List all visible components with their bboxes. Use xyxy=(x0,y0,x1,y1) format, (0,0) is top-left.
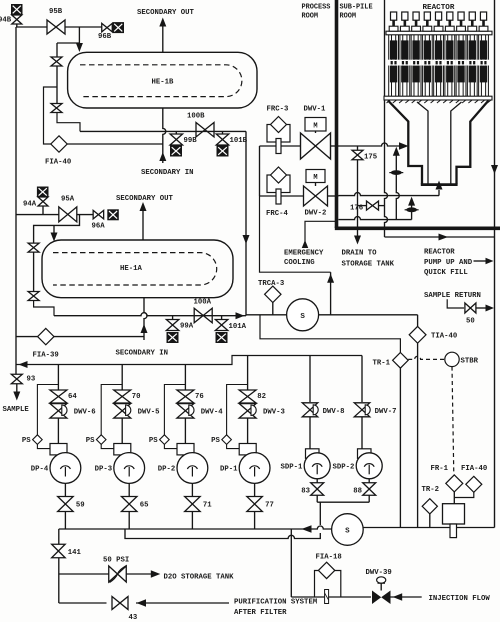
svg-text:76: 76 xyxy=(195,393,204,401)
svg-text:SDP-2: SDP-2 xyxy=(333,464,355,472)
flow arrow discharge header xyxy=(302,525,312,533)
wire 95B inlet line xyxy=(16,26,47,28)
valve HE-1A bypass upper xyxy=(28,243,39,252)
wall sub-pile room floor xyxy=(335,227,500,231)
wire drain drop with valve 175 xyxy=(357,146,359,151)
orifice lens 2 xyxy=(405,209,419,211)
wire SDP discharge join header xyxy=(317,501,369,503)
pump SDP-1 xyxy=(306,449,320,459)
svg-text:PUMP UP AND: PUMP UP AND xyxy=(424,259,473,267)
wire SECONDARY OUT B xyxy=(162,25,164,52)
wire lens pipe 1 (orifice riser) xyxy=(396,154,399,220)
svg-text:PS: PS xyxy=(149,437,158,445)
wire relief line to D2O tank xyxy=(126,573,152,575)
svg-text:SECONDARY OUT: SECONDARY OUT xyxy=(137,9,195,17)
pump SDP-2 xyxy=(358,449,372,459)
svg-text:95B: 95B xyxy=(49,8,63,16)
wire HE-1A inlet branch xyxy=(34,215,80,243)
heat exchanger HE-1A tube (dashed) xyxy=(53,253,217,285)
svg-text:101B: 101B xyxy=(230,137,248,145)
svg-text:ROOM: ROOM xyxy=(302,13,319,21)
wire pump suction header xyxy=(16,356,362,365)
svg-text:FRC-4: FRC-4 xyxy=(266,210,289,218)
pump DP-3 xyxy=(114,444,131,455)
svg-text:141: 141 xyxy=(68,549,82,557)
valve 77 xyxy=(247,497,263,512)
valve 59 xyxy=(58,497,74,512)
instrument FIA-40 flow indicator xyxy=(51,136,67,152)
wire 77 to discharge header xyxy=(254,512,256,530)
wire HX outlets to primary pump xyxy=(246,314,287,316)
svg-text:DWV-4: DWV-4 xyxy=(201,409,224,417)
valve 95A xyxy=(59,207,77,222)
svg-text:DP-3: DP-3 xyxy=(95,465,113,473)
wire B outlet downcomer to pump suction xyxy=(245,131,247,315)
svg-text:DRAIN TO: DRAIN TO xyxy=(342,250,378,258)
wire injection riser xyxy=(290,529,292,597)
wire emergency cooling supply stub xyxy=(305,221,337,247)
svg-text:71: 71 xyxy=(203,502,212,510)
svg-text:93: 93 xyxy=(27,376,36,384)
svg-text:43: 43 xyxy=(129,614,138,622)
wire SECONDARY IN B riser xyxy=(163,108,166,163)
svg-text:M: M xyxy=(313,123,317,131)
svg-text:TR-2: TR-2 xyxy=(422,486,440,494)
wire lens pipe 2 (orifice riser) xyxy=(411,204,413,220)
valve 99B (bowtie + box-X) xyxy=(175,131,177,134)
valve 100B xyxy=(196,122,214,137)
valve 83 xyxy=(311,483,324,496)
svg-text:ROOM: ROOM xyxy=(340,13,357,21)
wire valve 141 down xyxy=(58,558,60,603)
wire FIA-40 elbow to FR-1 stem xyxy=(454,492,474,497)
wire HE-1B bypass middle xyxy=(56,66,58,104)
wire HE-1B bypass to outlet header xyxy=(57,113,80,132)
svg-text:HE-1A: HE-1A xyxy=(120,265,143,273)
wire 88 outlet xyxy=(368,495,370,502)
wire reactor right downcomer xyxy=(494,0,496,528)
svg-text:SAMPLE: SAMPLE xyxy=(3,406,30,414)
valve DWV-5 xyxy=(114,404,131,419)
wire DP discharge header xyxy=(59,526,332,529)
wire primary pump discharge xyxy=(319,314,418,316)
fuel assembly 7 xyxy=(455,12,466,96)
valve DWV-3 xyxy=(239,404,256,419)
valve 71 xyxy=(185,497,201,512)
instrument FIA-39 flow indicator xyxy=(38,328,54,344)
valve DWV-8 xyxy=(302,403,318,417)
svg-text:S: S xyxy=(300,313,305,321)
instrument FIA-18 flow element xyxy=(325,590,329,604)
wire FR-1 stem to holder xyxy=(453,492,455,504)
pump S secondary circulating xyxy=(332,514,364,546)
valve DWV-39 xyxy=(372,591,381,605)
wire DWV-1 line xyxy=(260,145,277,147)
wire TIA-40 down to bottom header xyxy=(417,343,419,527)
svg-text:95A: 95A xyxy=(61,196,75,204)
valve 50 xyxy=(465,303,476,313)
instrument TIA-40 xyxy=(409,326,426,343)
wire DWV-7 to pump xyxy=(361,417,363,449)
reactor vessel funnel bottom xyxy=(421,183,458,186)
wire DP-1 suction drop xyxy=(247,356,249,391)
orifice lens 1 xyxy=(389,172,403,174)
wire reactor pump up line xyxy=(385,236,495,238)
svg-text:M: M xyxy=(313,174,317,182)
svg-text:SUB-PILE: SUB-PILE xyxy=(340,4,373,12)
valve 82 xyxy=(239,390,256,403)
instrument PS DP-4 xyxy=(37,385,58,436)
fuel assembly 1 xyxy=(388,12,399,96)
valve 175 xyxy=(352,150,363,160)
wire FIA-40 secondary supply line xyxy=(44,87,58,144)
svg-text:DWV-2: DWV-2 xyxy=(305,210,327,218)
valve 88 xyxy=(363,483,376,496)
svg-text:DWV-7: DWV-7 xyxy=(375,408,397,416)
pump DP-2 xyxy=(177,444,194,455)
valve relief 50 PSI xyxy=(109,566,127,582)
valve 94A vent (box-X + bowtie) xyxy=(37,187,48,197)
wire DWV-6 to pump xyxy=(57,418,59,444)
flow arrow on HE-1A outlet xyxy=(236,312,245,319)
wire pipe B riser into vessel xyxy=(438,190,440,196)
valve 94B vent (box-X + bowtie) xyxy=(12,5,23,15)
valve 70 xyxy=(114,390,131,403)
wire DWV-1 to wall xyxy=(331,145,339,147)
wire HE-1B outlet header xyxy=(80,130,246,132)
wire purification line with arrow xyxy=(136,602,229,604)
valve 176 xyxy=(367,201,379,210)
wire DWV-3 to pump xyxy=(247,418,249,444)
instrument TRCA-3 xyxy=(272,302,274,315)
svg-text:PURIFICATION SYSTEM: PURIFICATION SYSTEM xyxy=(234,599,318,607)
reactor bottom plate hatching xyxy=(387,100,491,103)
wire HE-1A bypass middle xyxy=(33,252,35,292)
heat exchanger HE-1A shell xyxy=(42,240,233,298)
svg-text:DWV-5: DWV-5 xyxy=(138,409,160,417)
wire SECONDARY OUT A xyxy=(142,210,144,240)
svg-text:65: 65 xyxy=(140,502,149,510)
wire injection flow line xyxy=(291,596,371,598)
svg-text:SECONDARY OUT: SECONDARY OUT xyxy=(116,195,174,203)
valve 100A xyxy=(194,308,212,323)
wire SDP-2 discharge xyxy=(368,479,370,483)
valve DWV-7 xyxy=(354,403,370,417)
valve 96B (bowtie + box-X) xyxy=(102,23,113,32)
svg-text:EMERGENCY: EMERGENCY xyxy=(284,250,324,258)
wire injection inlet with arrow xyxy=(391,596,422,598)
valve 65 xyxy=(121,497,137,512)
wire DWV-5 to pump xyxy=(121,418,123,444)
instrument TR-1 xyxy=(393,353,409,369)
svg-text:59: 59 xyxy=(76,502,85,510)
svg-text:96A: 96A xyxy=(92,223,106,231)
svg-text:DWV-3: DWV-3 xyxy=(263,409,286,417)
svg-text:70: 70 xyxy=(132,393,141,401)
svg-text:SECONDARY IN: SECONDARY IN xyxy=(116,350,169,358)
svg-text:TIA-40: TIA-40 xyxy=(431,333,457,341)
wire purification return line xyxy=(59,602,107,604)
instrument TR-2 xyxy=(422,499,437,514)
valve 101B (bowtie + box-X) xyxy=(222,131,224,134)
svg-text:DP-2: DP-2 xyxy=(158,465,176,473)
wire DWV-2 to wall xyxy=(328,195,339,197)
valve HE-1A bypass lower xyxy=(28,292,39,301)
wire HE-1A inlet drop xyxy=(53,225,55,234)
pump DP-1 xyxy=(239,444,256,455)
valve DWV-2 motor operated xyxy=(306,170,325,183)
svg-text:DWV-8: DWV-8 xyxy=(323,408,345,416)
wire SDP-1 suction drop xyxy=(309,356,311,403)
svg-text:D2O STORAGE TANK: D2O STORAGE TANK xyxy=(164,574,235,582)
pump DP-4 xyxy=(50,444,67,455)
instrument FR-1 holder box and probe xyxy=(443,504,465,524)
valve 64 xyxy=(50,390,67,403)
svg-text:96B: 96B xyxy=(98,33,112,41)
svg-text:94B: 94B xyxy=(0,17,12,25)
svg-text:STBR: STBR xyxy=(461,358,479,366)
valve 99A (bowtie + box-X) xyxy=(172,316,174,320)
instrument FIA-40 (flow) xyxy=(466,476,482,492)
wire HE-1B bypass upper xyxy=(57,42,79,44)
fuel assembly 3 xyxy=(410,12,421,96)
wire 95A to 96A xyxy=(77,214,94,216)
svg-text:83: 83 xyxy=(301,488,310,496)
svg-text:SDP-1: SDP-1 xyxy=(281,464,304,472)
wire drain line down xyxy=(357,160,359,237)
wire emergency cooling riser xyxy=(330,272,332,315)
wire pump bypass to TR-1 xyxy=(260,315,400,353)
valve 43 xyxy=(112,597,128,610)
svg-text:SAMPLE RETURN: SAMPLE RETURN xyxy=(424,292,481,300)
wire DWV-2 line xyxy=(260,195,277,197)
wire HE-1B inlet drop xyxy=(78,27,80,45)
svg-text:100A: 100A xyxy=(194,299,212,307)
wire TR-2 stem xyxy=(429,514,431,528)
svg-text:FIA-39: FIA-39 xyxy=(33,352,59,360)
svg-text:HE-1B: HE-1B xyxy=(152,79,175,87)
svg-text:DWV-6: DWV-6 xyxy=(74,409,96,417)
wire 50 PSI relief line xyxy=(59,573,109,575)
svg-text:PS: PS xyxy=(86,437,95,445)
wire SECONDARY IN A riser xyxy=(144,298,147,340)
wire main left vertical header xyxy=(15,27,17,374)
instrument FR-1 xyxy=(446,475,463,492)
wire 83 outlet xyxy=(316,495,318,502)
wire TR-1 down to bottom header xyxy=(399,368,401,527)
wire pump-up label leader arrow xyxy=(474,260,487,262)
svg-text:REACTOR: REACTOR xyxy=(424,249,455,257)
instrument PS DP-2 xyxy=(164,385,185,436)
fuel assembly 2 xyxy=(399,12,410,96)
instrument FIA-18 (diamond in holder) xyxy=(315,571,341,598)
instrument FRC-4 (diamond in holder) xyxy=(267,175,290,193)
svg-text:DWV-1: DWV-1 xyxy=(304,106,327,114)
wire DP-3 discharge xyxy=(128,483,130,496)
svg-text:FIA-18: FIA-18 xyxy=(316,554,342,562)
svg-text:SECONDARY IN: SECONDARY IN xyxy=(141,169,194,177)
svg-text:82: 82 xyxy=(257,393,266,401)
instrument FRC-3 (diamond in holder) xyxy=(267,125,290,143)
heat exchanger HE-1B tube (dashed) xyxy=(80,65,242,97)
svg-text:TR-1: TR-1 xyxy=(373,360,391,368)
wire SDP-2 suction drop xyxy=(361,356,363,403)
valve 96A (bowtie + box-X) xyxy=(93,210,104,219)
svg-text:175: 175 xyxy=(364,154,377,162)
pump S primary circulating xyxy=(287,299,319,331)
wire HE-1A bypass to outlet header xyxy=(34,301,54,316)
svg-text:PS: PS xyxy=(211,437,220,445)
wall process room / sub-pile room divider xyxy=(335,0,339,228)
svg-text:DP-1: DP-1 xyxy=(220,465,238,473)
svg-text:99A: 99A xyxy=(180,323,194,331)
wire 95A inlet line xyxy=(16,214,59,216)
wire SDP discharge drop xyxy=(319,502,321,525)
instrument STBR xyxy=(445,352,459,366)
valve 95B xyxy=(47,20,65,34)
svg-text:FRC-3: FRC-3 xyxy=(267,106,290,114)
reactor vessel top plate xyxy=(386,31,492,35)
wire SDP-1 discharge xyxy=(316,479,318,483)
flow arrow suction header into left main xyxy=(19,361,28,368)
reactor center tube xyxy=(417,102,462,184)
svg-text:FIA-40: FIA-40 xyxy=(461,465,487,473)
svg-text:REACTOR: REACTOR xyxy=(423,4,455,12)
svg-text:88: 88 xyxy=(353,488,362,496)
wire header elbow down to valve 141 xyxy=(58,529,60,544)
wire DP-4 discharge xyxy=(64,483,66,496)
reactor vessel bottom plate xyxy=(384,96,492,100)
wire DP-3 suction drop xyxy=(121,365,123,391)
valve 76 xyxy=(177,390,194,403)
svg-text:PS: PS xyxy=(22,437,31,445)
wire 65 to discharge header xyxy=(128,512,130,530)
wire valve 176 branch xyxy=(358,205,367,207)
svg-text:INJECTION FLOW: INJECTION FLOW xyxy=(429,595,491,603)
svg-text:50 PSI: 50 PSI xyxy=(103,557,129,565)
wire S pump discharge to right xyxy=(363,527,494,529)
svg-text:176: 176 xyxy=(350,205,363,213)
wire DP-2 suction drop xyxy=(184,365,186,391)
heat exchanger HE-1B shell xyxy=(68,52,257,108)
wire DP-4 suction drop xyxy=(57,365,59,391)
svg-text:AFTER FILTER: AFTER FILTER xyxy=(234,609,287,617)
fuel assembly 8 xyxy=(467,12,478,96)
svg-text:COOLING: COOLING xyxy=(284,259,315,267)
wire FIA-39 secondary supply line xyxy=(16,336,38,338)
svg-text:FR-1: FR-1 xyxy=(431,465,449,473)
valve DWV-4 xyxy=(177,404,194,419)
valve HE-1B bypass upper xyxy=(51,57,62,66)
wire DWV-8 to pump xyxy=(309,417,311,449)
valve DWV-6 xyxy=(50,404,67,419)
wire sample drop xyxy=(16,384,18,393)
instrument PS DP-1 xyxy=(227,385,248,436)
wire TIA-40 drop xyxy=(417,315,419,327)
svg-text:S: S xyxy=(345,528,350,536)
instrument PS DP-3 xyxy=(101,385,122,436)
valve DWV-1 motor operated xyxy=(305,118,326,132)
wire 71 to discharge header xyxy=(191,512,193,530)
svg-text:DWV-39: DWV-39 xyxy=(366,569,392,577)
valve 93 sample xyxy=(11,374,22,384)
wire discharge header lower parallel line xyxy=(125,529,320,539)
wire dashed TR-1 to STBR xyxy=(408,356,445,359)
svg-text:77: 77 xyxy=(265,502,274,510)
wire reactor pit left wall / pump-up line xyxy=(385,0,388,237)
svg-text:TRCA-3: TRCA-3 xyxy=(258,280,285,288)
fuel assembly 5 xyxy=(433,12,444,96)
fuel assembly 6 xyxy=(444,12,455,96)
reactor vessel funnel outline xyxy=(388,101,489,185)
svg-text:DP-4: DP-4 xyxy=(31,465,49,473)
wire SAMPLE RETURN line xyxy=(447,299,464,308)
valve HE-1B bypass lower xyxy=(51,104,62,113)
svg-text:FIA-40: FIA-40 xyxy=(45,159,71,167)
fuel assembly 9 xyxy=(478,12,489,96)
wire pipe C emergency cooling crossover xyxy=(339,217,412,220)
wire FRC header down from DWV lines xyxy=(259,146,261,196)
wire DP-2 discharge xyxy=(191,483,193,496)
wire DP-1 discharge xyxy=(254,483,256,496)
svg-text:50: 50 xyxy=(466,318,475,326)
svg-text:64: 64 xyxy=(68,393,77,401)
svg-text:PROCESS: PROCESS xyxy=(302,4,331,12)
svg-text:100B: 100B xyxy=(187,113,205,121)
wire 59 to discharge header xyxy=(64,512,66,530)
wire FRC header to emergency riser xyxy=(260,196,331,272)
svg-text:94A: 94A xyxy=(23,201,37,209)
wire dashed STBR down to FR-1 xyxy=(452,367,454,475)
fuel assembly 4 xyxy=(422,12,433,96)
wire pipe A reactor inlet upper xyxy=(339,143,402,146)
wire HE-1A outlet header xyxy=(54,313,246,316)
svg-text:STORAGE TANK: STORAGE TANK xyxy=(342,261,395,269)
valve 141 xyxy=(52,544,66,558)
wire pipe B reactor bottom feed xyxy=(339,193,440,196)
svg-text:101A: 101A xyxy=(229,323,247,331)
wire 95B to 96B xyxy=(65,26,102,28)
wire DWV-4 to pump xyxy=(184,418,186,444)
svg-text:99B: 99B xyxy=(184,137,198,145)
svg-text:QUICK FILL: QUICK FILL xyxy=(424,269,468,277)
valve 101A (bowtie + box-X) xyxy=(221,316,223,320)
